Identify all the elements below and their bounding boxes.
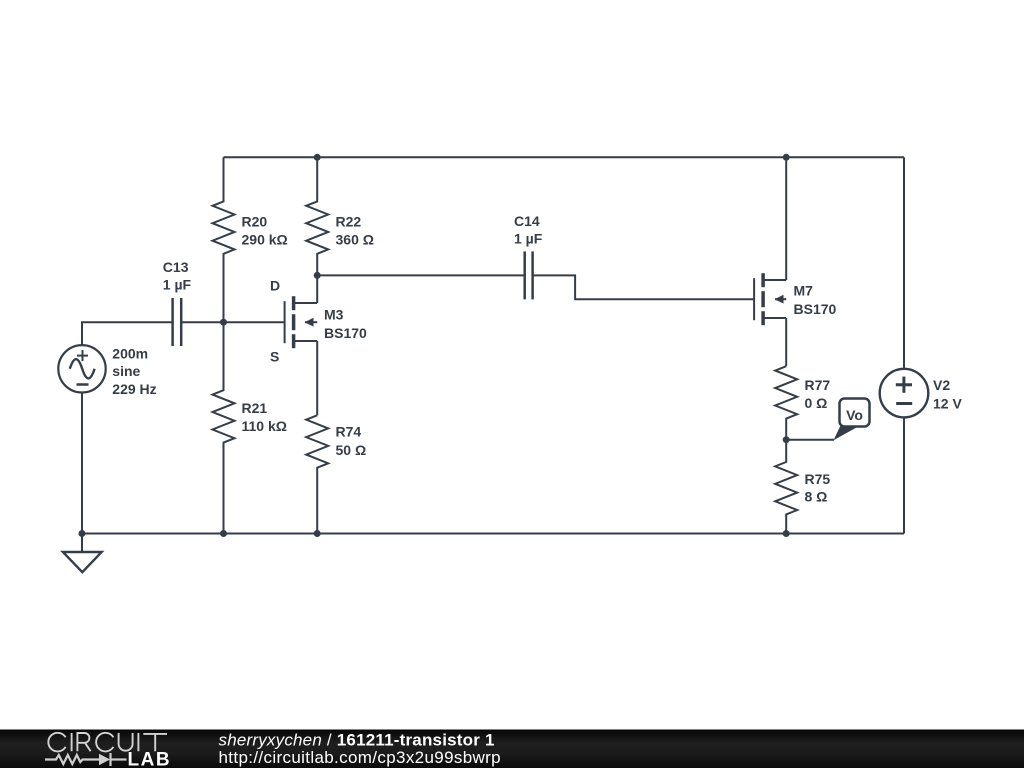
svg-text:M3: M3 [324,307,344,323]
node dot ground R75 [783,530,790,537]
wire M3 source vertical [316,341,318,415]
svg-text:50 Ω: 50 Ω [336,442,367,458]
wire Vo tap [786,439,834,441]
transistor M3 [285,296,318,348]
svg-text:1 µF: 1 µF [163,277,192,293]
svg-text:290 kΩ: 290 kΩ [242,231,288,247]
capacitor C14 [525,251,533,299]
node dot top R22 [314,154,321,161]
node dot ground V1 [79,530,86,537]
wire input rail V1 to C13 [82,322,173,345]
svg-text:R22: R22 [336,213,362,229]
svg-text:M7: M7 [794,283,814,299]
transistor M7 [754,273,786,325]
resistor R77 [775,366,797,440]
node dot ground R74 [314,530,321,537]
svg-text:R75: R75 [805,471,831,487]
resistor R74 [306,415,328,533]
wire ground stub [81,534,83,553]
node dot Vo junction [783,436,790,443]
node dot top M7 [783,154,790,161]
svg-text:8 Ω: 8 Ω [805,489,828,505]
svg-text:BS170: BS170 [794,301,837,317]
wire M7 source vertical [785,318,787,366]
svg-text:1 µF: 1 µF [514,231,543,247]
svg-text:R21: R21 [242,400,268,416]
svg-text:R77: R77 [805,377,831,393]
svg-text:110 kΩ: 110 kΩ [242,418,288,434]
logo CIRCUIT (stroked letterforms) [48,733,167,752]
wire drain node to C14 [317,274,525,276]
flag Vo [834,399,870,441]
wire M3 drain vertical [316,275,318,303]
svg-text:D: D [270,278,280,294]
voltage source V1 [58,345,105,392]
logo resistor-diode glyph [45,753,127,766]
svg-text:sherryxychen / 161211-transist: sherryxychen / 161211-transistor 1 [219,731,495,750]
resistor R21 [213,322,235,533]
svg-text:229 Hz: 229 Hz [112,381,156,397]
svg-text:R20: R20 [242,213,268,229]
ground symbol [63,552,102,572]
svg-text:C14: C14 [514,213,540,229]
wire node to M3 gate [224,321,285,323]
svg-text:200m: 200m [112,346,148,362]
svg-text:12 V: 12 V [933,396,962,412]
svg-text:Vo: Vo [846,407,863,423]
wire V2 top lead [903,157,905,369]
svg-text:V2: V2 [933,377,950,393]
svg-text:360 Ω: 360 Ω [336,231,374,247]
wire top rail [224,156,905,158]
footer bar [0,730,1024,768]
svg-text:BS170: BS170 [324,325,367,341]
svg-text:S: S [270,349,279,365]
svg-text:http://circuitlab.com/cp3x2u99: http://circuitlab.com/cp3x2u99sbwrp [219,748,502,767]
resistor R22 [306,157,328,275]
node dot drain junction [314,272,321,279]
svg-text:0 Ω: 0 Ω [805,395,828,411]
svg-text:C13: C13 [163,259,189,275]
resistor R20 [213,157,235,322]
node dot ground R21 [220,530,227,537]
svg-text:sine: sine [112,363,140,379]
wire C13 to node [181,321,223,323]
wire M7 drain vertical [785,157,787,280]
wire V2 bottom lead [903,417,905,533]
capacitor C13 [173,298,182,346]
voltage source V2 [880,369,929,418]
wire ground rail [82,533,904,535]
svg-text:LAB: LAB [128,749,172,768]
node dot C13 junction [220,319,227,326]
svg-text:R74: R74 [336,424,362,440]
wire C14 to M7 gate [533,275,755,299]
wire V1 bottom lead [81,393,83,534]
resistor R75 [775,440,797,534]
